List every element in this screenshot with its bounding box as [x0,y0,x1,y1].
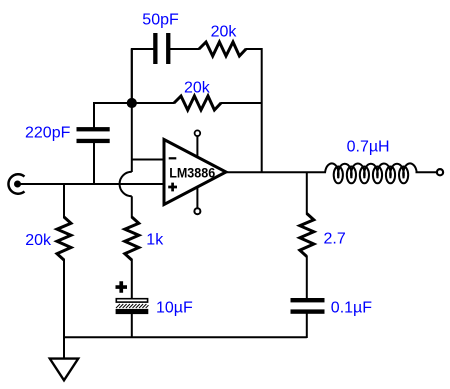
wire top 20k to feedback line [246,49,262,172]
svg-text:220pF: 220pF [25,125,71,142]
svg-text:2.7: 2.7 [324,230,346,247]
wire 50pF to 20k [170,48,200,50]
wire 10uF to bus [131,313,133,337]
capacitor 10uF electrolytic [116,299,149,314]
wire to inverting input [132,159,164,161]
output jack J2 [437,169,443,175]
resistor 20k mid feedback [174,96,221,110]
resistor 2.7 [300,214,314,257]
capacitor 0.1uF [291,298,325,314]
wire left branch down [63,184,65,218]
wire output line [226,171,326,173]
input jack J1 [8,174,24,193]
resistor 20k input [57,217,71,260]
capacitor 220pF [77,127,110,143]
svg-text:10µF: 10µF [156,300,193,317]
node junction dot [127,98,137,108]
wire mid 20k right lead [221,102,263,104]
svg-text:1k: 1k [146,231,164,248]
resistor 20k top feedback [199,42,246,56]
pin V- bottom [194,187,200,215]
capacitor 50pF [153,33,170,64]
resistor 1k [125,217,139,260]
wire 1k to 10uF [131,259,133,299]
svg-text:0.7µH: 0.7µH [347,139,390,156]
inductor 0.7uH [325,163,417,183]
op-amp U1 LM3886 [164,140,226,205]
wire 2.7 to 0.1uF [306,256,308,299]
wire top path left [132,49,154,104]
ground [50,359,78,381]
wire 220pF top lead [94,103,132,128]
wire mid 20k left lead [132,102,175,104]
wire coil to output jack [416,171,438,173]
svg-text:LM3886: LM3886 [169,165,215,181]
svg-text:20k: 20k [25,232,52,249]
wire 0.1uF to bus [306,313,308,338]
wire 220pF bottom lead [93,143,95,184]
label plus polarity 10uF [116,281,128,293]
wire hop over input line [120,172,132,197]
wire hop lower vertical [131,196,133,218]
svg-text:20k: 20k [184,79,211,96]
wire zobel top lead [306,172,308,214]
svg-text:20k: 20k [211,24,238,41]
pin V+ top [195,130,201,157]
wire inverting node vertical [131,49,133,172]
svg-text:0.1µF: 0.1µF [331,299,372,316]
wire ground bus [63,336,307,338]
svg-text:50pF: 50pF [142,12,179,29]
wire left branch to ground [63,259,65,359]
wire input line [20,183,164,185]
